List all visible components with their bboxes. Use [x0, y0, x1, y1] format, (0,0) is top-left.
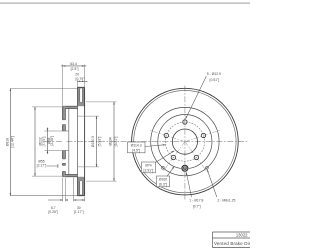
svg-text:[9.21"]: [9.21"] [114, 137, 118, 147]
centerline (section) [45, 141, 130, 143]
ext lines down [62, 178, 64, 202]
svg-text:1 - Ø17.8: 1 - Ø17.8 [189, 199, 203, 203]
svg-text:[6.3"]: [6.3"] [159, 183, 167, 187]
dim 30 [74, 199, 85, 201]
svg-text:[0.79"]: [0.79"] [76, 77, 86, 81]
hat inner line [68, 108, 70, 174]
lug hole 234deg [171, 155, 175, 159]
disc outline bottom [78, 177, 85, 196]
lug hole 18deg [201, 133, 205, 137]
svg-text:[4.5"]: [4.5"] [132, 149, 140, 153]
radial centerline 18deg [185, 130, 220, 141]
hat bottom wall [65, 175, 77, 177]
mounting flange bar [63, 106, 66, 177]
lug hole top 90deg [183, 120, 187, 124]
svg-text:[2.91"]: [2.91"] [144, 169, 154, 173]
centerline horizontal (front) [130, 141, 248, 143]
svg-text:2 - M8x1.25: 2 - M8x1.25 [218, 199, 236, 203]
svg-text:Ø316: Ø316 [6, 138, 10, 146]
disc inboard face line [77, 106, 79, 177]
disc band (bottom) [78, 177, 85, 196]
svg-text:20: 20 [75, 72, 79, 76]
svg-text:[0.26"]: [0.26"] [48, 210, 58, 214]
circle D202 [151, 107, 219, 175]
svg-text:[1.17"]: [1.17"] [74, 210, 84, 214]
flange face outline [62, 106, 64, 177]
svg-text:[0.7"]: [0.7"] [193, 205, 201, 209]
bore D74 [172, 129, 197, 154]
disc outline top [78, 87, 85, 106]
lug hole 162deg [164, 133, 168, 137]
flange lug hole gap top [62, 120, 66, 125]
M8 hole right 310deg [206, 166, 209, 169]
boxed label D74 [141, 162, 155, 173]
hole edge lines in flange [63, 120, 69, 172]
svg-text:[12.44"]: [12.44"] [10, 136, 14, 148]
bolt circle D114.3 dashed [165, 122, 204, 161]
dim 6.7 [48, 199, 68, 201]
hat top wall [65, 106, 77, 108]
radial centerline 306deg [185, 142, 207, 172]
dim 63.4 line [61, 65, 87, 67]
svg-text:[2.5"]: [2.5"] [71, 67, 79, 71]
lug hole 306deg [194, 155, 198, 159]
circle D160 hat [158, 115, 212, 169]
svg-text:5 - Ø12.9: 5 - Ø12.9 [207, 72, 221, 76]
disc right face [84, 87, 86, 195]
hole D17.8 at bottom of hat circle [182, 165, 188, 171]
M8 hole left 230deg [162, 166, 165, 169]
ext lines [10, 87, 77, 89]
outer inner ring [134, 90, 236, 192]
svg-text:[2.17"]: [2.17"] [37, 164, 47, 168]
svg-text:Vented Brake Disc: Vented Brake Disc [214, 241, 250, 246]
dim 20 line [77, 80, 88, 82]
vane slot (bottom) [80, 180, 83, 195]
svg-text:Ø114.3: Ø114.3 [131, 144, 142, 148]
svg-text:[7.95"]: [7.95"] [42, 137, 46, 147]
radial centerline 162deg [150, 130, 185, 141]
vane slot (top) [80, 88, 83, 103]
boxed label D160 [157, 176, 170, 187]
flange 17.8 hole gap [62, 165, 66, 171]
flange lug hole gap bottom [62, 159, 66, 163]
svg-text:Ø234: Ø234 [109, 137, 113, 145]
svg-text:Ø74: Ø74 [145, 164, 152, 168]
centerline vertical (front) [184, 86, 186, 201]
svg-text:6.7: 6.7 [51, 206, 56, 210]
flange bore gap [62, 131, 66, 151]
boxed label D114.3 [128, 142, 146, 153]
disc band left plate (top) [78, 87, 85, 106]
page top border [0, 2, 250, 4]
svg-text:[0.51"]: [0.51"] [210, 78, 220, 82]
extension lines top [62, 65, 64, 107]
svg-text:13022: 13022 [236, 233, 248, 238]
svg-text:[2.28"]: [2.28"] [50, 136, 54, 146]
svg-text:Ø160: Ø160 [159, 178, 167, 182]
dim line [9, 88, 11, 195]
svg-text:Ø150.5: Ø150.5 [91, 136, 95, 147]
svg-text:[5.93"]: [5.93"] [98, 137, 102, 147]
svg-text:30: 30 [77, 206, 81, 210]
radial centerline 234deg [163, 142, 185, 172]
outer circle D316 [132, 88, 239, 195]
